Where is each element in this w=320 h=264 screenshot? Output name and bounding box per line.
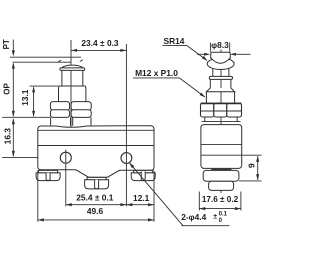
23.4/12.1 extension line through right hole [125,44,127,206]
terminal screw right [134,170,153,173]
svg-text:23.4 ± 0.3: 23.4 ± 0.3 [81,38,119,48]
9 dim extension bottom [239,180,262,182]
mounting hole left vertical crosshair / 25.4 extension [65,150,67,207]
plunger neck side view [212,69,214,77]
plunger lower cylinder [58,89,60,102]
M12 leader [133,77,179,79]
svg-text:16.3: 16.3 [2,128,12,145]
dome tick right [80,60,83,62]
panel datum line [2,116,50,118]
9 dim extension top [242,154,262,156]
terminal screw head (side) [203,170,239,181]
dome tick left [58,60,61,62]
body right edge extension [153,171,155,222]
svg-text:PT: PT [2,39,11,49]
body top shoulder line (side) [202,121,241,123]
terminal plate (side) [209,181,234,190]
svg-text:2-φ4.4: 2-φ4.4 [181,212,206,222]
bushing stubs below nut (side) [204,117,206,122]
svg-text:OP: OP [2,83,11,95]
operating-position reference line [13,61,72,63]
svg-text:17.6 ± 0.2: 17.6 ± 0.2 [202,195,239,204]
dia8.3 left arrow [197,53,208,55]
17.6 dimension line [199,208,241,210]
plunger dome [62,65,84,68]
body left edge extension [37,170,39,222]
thread boss side view [206,88,234,92]
svg-text:0.1: 0.1 [219,212,228,218]
svg-text:49.6: 49.6 [87,206,104,216]
body cover seam (top) [38,129,154,131]
svg-text:9: 9 [247,163,257,168]
leader shelf under 2-dia4.4 text [182,225,230,227]
16.3 dimension line [12,119,14,156]
dia8.3 extension lines [209,43,211,52]
switch body outline (side) [201,125,242,169]
plunger cylinder side view [209,79,211,88]
side view centerline [220,50,222,194]
free-position reference line [10,56,81,58]
svg-text:25.4 ± 0.1: 25.4 ± 0.1 [76,192,114,202]
panel nut front (4 cells) [50,102,69,111]
body parting line (middle) [38,145,154,147]
dia8.3 right arrow [232,53,251,55]
17.6 extension lines [198,192,200,211]
leader line to right hole (2-dia4.4) [129,163,183,226]
svg-text:M12 x P1.0: M12 x P1.0 [135,68,178,78]
PT dimension arrow [12,40,14,55]
plunger cap side view [211,52,231,58]
plunger upper cylinder [61,70,63,86]
13.1 extension line [30,85,59,87]
hex nut side view [201,103,214,117]
svg-text:12.1: 12.1 [133,193,150,203]
plunger collar band [60,68,85,71]
mounting surface line (side) [201,154,242,156]
terminal screw left [39,170,58,173]
svg-text:13.1: 13.1 [20,89,30,106]
9 dimension line [257,156,259,180]
terminal screw center [87,177,106,180]
body parting line (side) [201,144,242,146]
bushing stubs below nut [50,117,52,125]
13.1 dimension line [33,87,35,116]
49.6 dimension line [38,219,154,221]
mounting hole right [121,153,132,164]
SR14 leader [162,45,187,47]
front view plunger centerline (23.4 dim left extension) [70,40,72,170]
23.4 dimension line [71,49,126,51]
svg-text:φ8.3: φ8.3 [211,40,229,50]
OP dimension line [12,63,14,116]
plunger ball (SR14) side view [207,58,234,69]
svg-text:±: ± [213,214,217,221]
plunger flange side view [209,76,232,79]
switch body outline (front) [38,126,154,178]
25.4 dimension line [66,204,127,206]
terminal screw slot (side, dark) [211,169,231,172]
svg-text:SR14: SR14 [164,36,185,46]
mounting hole left [60,152,71,163]
hole-center datum line [2,157,75,159]
plunger step ledge [59,85,86,87]
12.1 dimension line [126,204,154,206]
